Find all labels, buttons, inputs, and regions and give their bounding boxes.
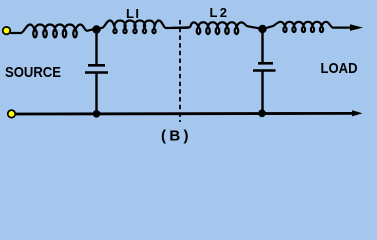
node junction top left bbox=[92, 25, 100, 33]
svg-text:SOURCE: SOURCE bbox=[5, 64, 61, 81]
inductor L2 bbox=[172, 22, 263, 34]
node junction top right bbox=[258, 25, 266, 33]
inductor coil (source side, unlabeled) bbox=[11, 24, 93, 37]
wire C2 bottom lead bbox=[261, 71, 263, 114]
node junction bottom right bbox=[258, 110, 266, 118]
capacitor C1 bbox=[85, 65, 108, 72]
wire bottom rail bbox=[14, 112, 352, 115]
inductor coil (load side, unlabeled) bbox=[263, 22, 351, 32]
svg-text:LI: LI bbox=[126, 6, 139, 21]
svg-text:LOAD: LOAD bbox=[321, 60, 358, 77]
terminal source top bbox=[2, 26, 11, 35]
svg-text:(B): (B) bbox=[161, 128, 189, 145]
arrowhead bottom rail (to load) bbox=[352, 110, 363, 116]
inductor L1 bbox=[97, 20, 189, 33]
wire C1 bottom lead bbox=[95, 73, 97, 115]
node junction bottom left bbox=[93, 110, 101, 118]
section divider dashed line bbox=[179, 20, 181, 122]
terminal source bottom bbox=[7, 109, 16, 118]
wire C2 top lead bbox=[261, 29, 263, 63]
wire C1 top lead bbox=[95, 30, 97, 65]
arrowhead top rail (to load) bbox=[350, 24, 363, 31]
capacitor C2 bbox=[253, 63, 276, 70]
